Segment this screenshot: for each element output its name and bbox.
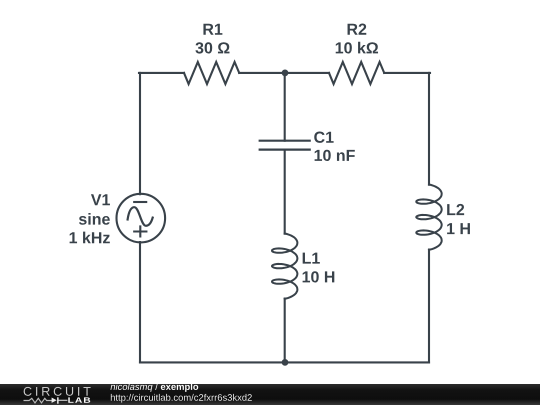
wire left vertical top (139, 73, 141, 194)
logo resistor zigzag (24, 398, 53, 403)
capacitor C1 (260, 141, 310, 150)
wire left vertical bottom (139, 242, 141, 362)
resistor R2 (329, 62, 384, 84)
footer url line (111, 394, 252, 403)
label L1 (303, 253, 320, 264)
footer author line (110, 383, 198, 392)
logo wire diode to LAB (58, 399, 67, 401)
label C1 (314, 132, 333, 143)
wire right vertical bottom (428, 250, 430, 363)
wire C1 to L1 (284, 150, 286, 234)
V1 plus sign (134, 226, 146, 236)
value 10 nF (315, 150, 355, 161)
label R1 (203, 24, 222, 35)
bottom junction dot (282, 359, 289, 366)
value 10 kOhm (336, 42, 378, 54)
value 1 H (447, 223, 470, 234)
wire bottom rail (140, 361, 429, 363)
wire middle vertical bottom (284, 299, 286, 363)
wire middle vertical top (284, 73, 286, 141)
label V1 (91, 194, 110, 205)
wire right vertical top (428, 73, 430, 185)
value 30 Ohm (195, 42, 229, 53)
V1 sine wave (128, 207, 153, 226)
logo LAB text (68, 397, 90, 402)
logo CIRCUIT text (24, 387, 91, 396)
label R2 (348, 24, 367, 35)
inductor L2 (416, 185, 441, 250)
voltage source V1 circle (117, 194, 166, 243)
node A junction dot (282, 70, 289, 77)
wire top rail left (139, 72, 184, 74)
logo diode triangle (52, 398, 57, 403)
value sine (79, 213, 110, 225)
value 10 H (303, 271, 335, 282)
inductor L1 (272, 234, 297, 299)
resistor R1 (184, 62, 239, 84)
logo diode cathode bar (57, 397, 59, 403)
value 1 kHz (70, 232, 110, 244)
label L2 (447, 204, 464, 215)
footer bar (0, 384, 540, 405)
wire R2 to top-right corner (384, 72, 430, 74)
wire R1 to node A (239, 72, 285, 74)
V1 minus sign (134, 201, 146, 203)
wire node A to R2 (285, 72, 329, 74)
